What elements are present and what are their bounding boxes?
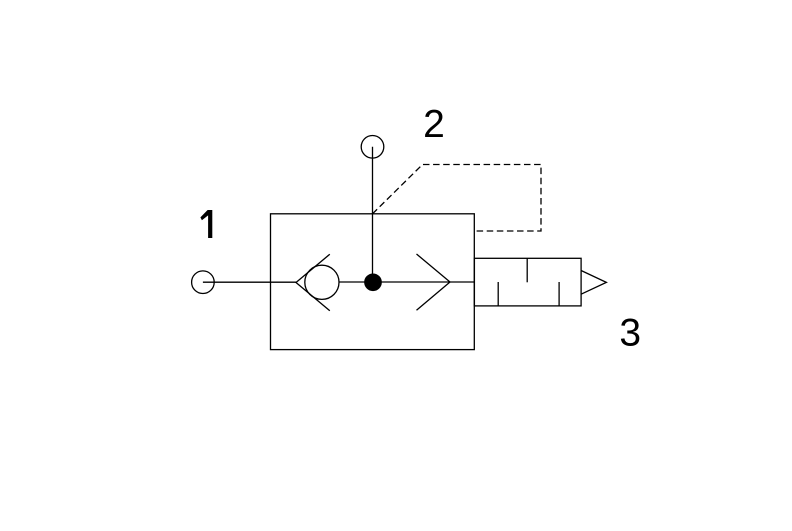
flow direction arrow	[417, 254, 451, 310]
port label 1	[200, 210, 212, 238]
valve body	[271, 214, 475, 350]
silencer baffle tick 1	[497, 282, 499, 306]
pilot line (dashed)	[373, 165, 542, 232]
wire port2 vertical	[372, 147, 374, 282]
exhaust cone triangle	[581, 271, 606, 295]
port circle 2	[361, 136, 384, 159]
wire port1 to check-valve seat	[203, 281, 296, 283]
junction node dot	[365, 274, 381, 290]
wire check valve to silencer	[339, 281, 474, 283]
svg-text:3: 3	[619, 312, 641, 355]
silencer baffle tick 3	[558, 282, 560, 306]
check valve poppet circle	[305, 265, 339, 299]
port circle 1	[192, 271, 215, 294]
silencer baffle tick 2	[526, 258, 528, 282]
svg-text:2: 2	[423, 103, 445, 146]
check valve seat V1	[296, 254, 330, 311]
silencer body	[474, 258, 581, 306]
